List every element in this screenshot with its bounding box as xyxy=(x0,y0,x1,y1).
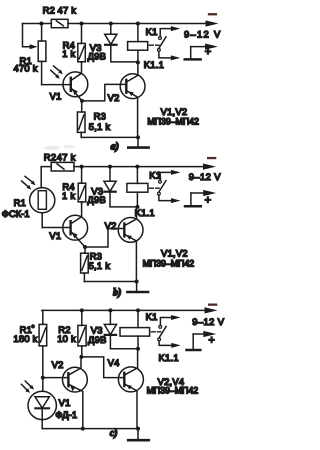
svg-text:V2: V2 xyxy=(105,220,117,231)
svg-text:R2: R2 xyxy=(43,5,55,16)
transistor V2 (b) xyxy=(118,207,143,282)
svg-text:9–12 V: 9–12 V xyxy=(189,171,221,182)
label Д9В (b) xyxy=(87,194,106,205)
svg-text:K1: K1 xyxy=(149,169,161,180)
label R3 (b) xyxy=(90,250,102,261)
label 9-12 V (a) xyxy=(184,28,221,39)
resistor R4 (a) xyxy=(78,22,86,62)
svg-text:МП39–МП42: МП39–МП42 xyxy=(147,386,199,396)
label V1 (a) xyxy=(50,90,62,101)
label 1 k (b) xyxy=(62,190,75,201)
label ФД-1 (c) xyxy=(55,409,77,420)
minus supply arrow terminal (b) xyxy=(203,164,216,170)
svg-text:K1.1: K1.1 xyxy=(159,352,179,363)
minus sign (b) xyxy=(207,157,216,159)
svg-text:9–12 V: 9–12 V xyxy=(184,28,221,39)
svg-text:K1: K1 xyxy=(146,26,158,37)
label ФСК-1 (b) xyxy=(2,208,30,219)
svg-text:180 k: 180 k xyxy=(13,333,37,344)
label R2 47 k (a) xyxy=(43,5,77,16)
svg-text:a): a) xyxy=(111,142,119,153)
transistor V2 (c) xyxy=(63,357,88,429)
node V4 emitter rail junction (c) xyxy=(136,427,140,431)
plus supply arrow terminal (c) xyxy=(187,331,217,350)
resistor R2 (b) xyxy=(51,162,74,171)
plus sign (c) xyxy=(208,335,215,347)
wire V1 emitter to V2 base (a) xyxy=(82,84,126,101)
label V2 (a) xyxy=(108,92,120,103)
svg-text:+: + xyxy=(205,46,212,58)
label R1* (c) xyxy=(20,324,35,335)
plus sign (b) xyxy=(205,194,212,206)
label 470 k (a) xyxy=(14,62,38,73)
svg-text:K1.1: K1.1 xyxy=(144,59,164,70)
diode V3 (a) xyxy=(105,22,138,62)
label 180 k (c) xyxy=(13,333,37,344)
wire V1 emitter to V2 base (b) xyxy=(85,229,124,248)
label V1 (c) xyxy=(59,397,71,408)
svg-text:V1,V2: V1,V2 xyxy=(161,247,188,258)
label V1,V2 (b) xyxy=(161,247,188,258)
relay link dashes (b) xyxy=(149,187,159,189)
node rail-K1 junction (b) xyxy=(135,165,139,169)
label МП39-МП42 (a) xyxy=(147,117,199,127)
label 9-12 V (b) xyxy=(189,171,221,182)
svg-text:Д9В: Д9В xyxy=(87,194,106,205)
wire top rail (b) xyxy=(41,166,203,168)
minus sign (c) xyxy=(208,304,217,306)
label Д9В (c) xyxy=(88,334,107,345)
wire rail to photoresistor (b) xyxy=(40,167,42,188)
svg-text:R2: R2 xyxy=(44,151,56,162)
svg-text:K1: K1 xyxy=(146,311,158,322)
svg-text:5,1 k: 5,1 k xyxy=(89,121,111,132)
svg-text:Д9В: Д9В xyxy=(88,50,107,61)
svg-text:V1: V1 xyxy=(50,90,62,101)
label 1 k (a) xyxy=(62,48,75,59)
wire top rail (c) xyxy=(42,309,205,311)
node rail-V3 junction (b) xyxy=(108,165,112,169)
resistor R1* (c) xyxy=(39,310,47,346)
svg-text:1 k: 1 k xyxy=(62,48,75,59)
resistor R2 (c) xyxy=(78,308,86,357)
relay coil K1 (b) xyxy=(127,167,148,209)
svg-text:V2: V2 xyxy=(52,359,64,370)
light arrows into R1 (b) xyxy=(22,176,36,189)
transistor V2 (a) xyxy=(120,63,145,138)
label K1.1 (b) xyxy=(135,207,155,218)
svg-text:K1.1: K1.1 xyxy=(135,207,155,218)
svg-text:МП39–МП42: МП39–МП42 xyxy=(143,258,195,268)
label 10 k (c) xyxy=(57,333,76,344)
svg-text:1 k: 1 k xyxy=(62,190,75,201)
relay link dashes (c) xyxy=(151,331,160,333)
wire bottom rail (c) xyxy=(42,428,138,430)
svg-text:V1: V1 xyxy=(49,230,61,241)
label 5,1 k (a) xyxy=(89,121,111,132)
label V3 (c) xyxy=(91,324,103,335)
ground (a) xyxy=(128,137,148,147)
light arrows into V1 (a) xyxy=(51,66,63,79)
label a) xyxy=(111,142,119,153)
label K1.1 (a) xyxy=(144,59,164,70)
label 5,1 k (b) xyxy=(89,260,111,271)
light arrows into V1 (c) xyxy=(21,381,34,393)
label V4 (c) xyxy=(108,357,120,368)
minus supply arrow terminal (c) xyxy=(205,307,218,313)
contact K1.1 (b) xyxy=(158,170,181,203)
svg-text:ФД-1: ФД-1 xyxy=(55,409,77,420)
wire V1 base (b) xyxy=(42,227,70,229)
label K1.1 (c) xyxy=(159,352,179,363)
label R2 (c) xyxy=(58,324,70,335)
wire V1 base (a) xyxy=(42,84,71,86)
photoresistor R1 ФСК-1 (b) xyxy=(30,188,55,228)
label K1 (b) xyxy=(149,169,161,180)
resistor R1 (a) xyxy=(38,24,46,85)
label V1,V2 (a) xyxy=(161,106,188,117)
wire bottom rail (a) xyxy=(81,136,138,138)
diode V3 (b) xyxy=(104,167,137,207)
label МП39-МП42 (c) xyxy=(147,386,199,396)
svg-text:V2: V2 xyxy=(108,92,120,103)
label K1 (a) xyxy=(146,26,158,37)
node rail-R1 junction (a) xyxy=(39,22,43,26)
label МП39-МП42 (b) xyxy=(143,258,195,268)
wire potentiometer wiper branch (a) xyxy=(23,24,38,50)
transistor V1 (b) xyxy=(63,202,88,247)
svg-text:ФСК-1: ФСК-1 xyxy=(2,208,30,219)
resistor R3 (a) xyxy=(77,101,85,137)
label V3 (a) xyxy=(90,42,102,53)
wire top rail (a) xyxy=(23,23,207,25)
wire V2 base (c) xyxy=(43,377,69,379)
label R3 (a) xyxy=(94,111,106,122)
plus sign (a) xyxy=(205,46,212,58)
relay coil K1 (a) xyxy=(128,22,148,65)
photodiode V1 ФД-1 (c) xyxy=(28,391,56,428)
label V2 (b) xyxy=(105,220,117,231)
node V2 collector junction (c) xyxy=(79,355,83,359)
resistor R3 (b) xyxy=(81,247,89,282)
minus supply arrow terminal (a) xyxy=(206,20,219,26)
svg-text:Д9В: Д9В xyxy=(88,334,107,345)
svg-text:47 k: 47 k xyxy=(58,5,77,16)
label V2,V4 (c) xyxy=(158,376,185,387)
node V2 base tap (c) xyxy=(41,376,45,380)
node V2 emitter rail junction (c) xyxy=(81,427,85,431)
diode V3 (c) xyxy=(104,308,138,348)
wire V2 collector node to V4 base (c) xyxy=(81,357,124,378)
svg-text:5,1 k: 5,1 k xyxy=(89,260,111,271)
contact K1.1 (a) xyxy=(158,26,181,60)
svg-text:V4: V4 xyxy=(108,357,120,368)
wire R1 to photodiode (c) xyxy=(42,346,44,391)
svg-text:R1: R1 xyxy=(14,197,26,208)
relay coil K1 (c) xyxy=(120,308,150,350)
relay link dashes (a) xyxy=(149,44,159,46)
node rail-R4 junction (b) xyxy=(80,165,84,169)
label V2 (c) xyxy=(52,359,64,370)
svg-text:*: * xyxy=(32,325,35,332)
label Д9В (a) xyxy=(88,50,107,61)
label c) xyxy=(110,428,118,439)
label K1 (c) xyxy=(146,311,158,322)
label R2 47 k (b) xyxy=(44,151,76,162)
label R1 (a) xyxy=(20,55,32,66)
ground (c) xyxy=(128,429,149,441)
svg-text:9–12 V: 9–12 V xyxy=(192,316,224,327)
contact K1.1 (c) xyxy=(158,315,181,348)
svg-text:c): c) xyxy=(110,428,118,439)
minus sign (a) xyxy=(208,13,217,15)
paper smudge (a) xyxy=(44,145,75,150)
node V1 emitter junction (a) xyxy=(80,99,84,103)
node V1 emitter junction (b) xyxy=(83,245,87,249)
svg-text:V1: V1 xyxy=(59,397,71,408)
wire bottom rail (b) xyxy=(84,281,136,283)
label b) xyxy=(113,287,121,298)
plus supply arrow terminal (a) xyxy=(185,44,218,60)
svg-text:+: + xyxy=(208,335,215,347)
node bottom rail junction (a) xyxy=(136,135,140,139)
ground (b) xyxy=(127,282,148,293)
node bottom rail junction (b) xyxy=(135,280,139,284)
label R1 (b) xyxy=(14,197,26,208)
label R4 (a) xyxy=(63,39,75,50)
svg-text:47 k: 47 k xyxy=(57,151,76,162)
label 9-12 V (c) xyxy=(192,316,224,327)
svg-text:10 k: 10 k xyxy=(57,333,76,344)
resistor R4 (b) xyxy=(78,167,86,204)
svg-text:МП39–МП42: МП39–МП42 xyxy=(147,117,199,127)
label R4 (b) xyxy=(62,181,74,192)
label V1 (b) xyxy=(49,230,61,241)
transistor V4 (c) xyxy=(118,349,143,429)
phototransistor V1 (a) xyxy=(63,62,88,101)
svg-text:b): b) xyxy=(113,287,121,298)
resistor R2 (a) xyxy=(51,19,68,27)
svg-text:+: + xyxy=(205,194,212,206)
svg-text:470 k: 470 k xyxy=(14,62,38,73)
label V3 (b) xyxy=(91,186,103,197)
plus supply arrow terminal (b) xyxy=(185,190,216,206)
